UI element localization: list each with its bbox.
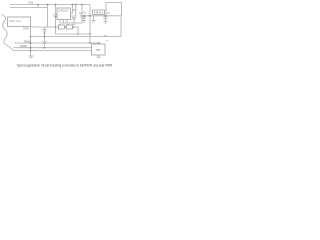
- svg-text:PWM2: PWM2: [20, 46, 28, 48]
- junction dot x30 y43: [30, 42, 32, 44]
- wire cap C2 to ground: [73, 19, 75, 23]
- ground G2: [82, 20, 86, 22]
- junction dot x55 y16: [55, 16, 57, 18]
- junction dot rail x55: [55, 4, 57, 6]
- junction dot x85 y15: [83, 15, 85, 17]
- junction dot x90 y15: [89, 15, 91, 17]
- capacitor C5 right crystal: [104, 16, 108, 18]
- junction dot rail x47: [47, 4, 49, 6]
- svg-text:GND: GND: [23, 26, 29, 30]
- wire crystal net: [84, 15, 121, 17]
- wire vertical x90 main: [89, 5, 91, 44]
- ground G3: [104, 21, 108, 23]
- svg-text:xx: xx: [59, 24, 61, 26]
- module box PWM: [92, 44, 106, 55]
- junction dot x99 y43: [98, 42, 100, 44]
- junction dot x65 y27: [65, 26, 67, 28]
- IC connector box ICP: [8, 17, 31, 27]
- junction dot x73 y27: [73, 26, 75, 28]
- wire net y36 long: [31, 36, 122, 38]
- svg-text:cap: cap: [96, 49, 101, 52]
- wire ICP vertical x30: [30, 27, 32, 52]
- wire EEPROM bottom pins: [59, 20, 61, 24]
- wire top-right loop: [106, 3, 122, 16]
- wire vertical from rails x47: [47, 5, 49, 28]
- ground G4 under x30: [30, 51, 32, 56]
- wire vertical x78 down: [77, 27, 79, 34]
- ground G6 crystal left pin: [93, 16, 95, 20]
- junction dot x90 y43: [89, 42, 91, 44]
- capacitor C7 column x44 lower: [44, 37, 46, 42]
- wire cable squiggle: [2, 15, 14, 51]
- junction dot rail x82: [81, 4, 83, 6]
- capacitor C4 left crystal: [82, 16, 86, 18]
- wire second rail: [10, 7, 48, 9]
- wire net y34: [56, 33, 91, 35]
- wire PWM pair top: [14, 47, 92, 49]
- wire net y43 right: [14, 42, 100, 44]
- junction dot x110 y15: [105, 15, 107, 17]
- junction dot x44 y36: [44, 36, 46, 38]
- junction dot x44 y33: [44, 32, 46, 34]
- svg-text:VDD: VDD: [29, 3, 34, 5]
- wire vertical x82: [81, 5, 83, 16]
- wire rail-to-rail connector: [37, 5, 39, 8]
- IC EEPROM box U2: [57, 8, 71, 20]
- junction dot x44 y46: [44, 47, 46, 49]
- junction dot x30 y36: [30, 36, 32, 38]
- ground G1: [72, 22, 77, 24]
- wire right vertical to mid wire: [120, 16, 122, 37]
- wire vertical x75 pin: [71, 5, 76, 17]
- junction dot x30 y51: [30, 50, 32, 52]
- junction dot rail x72: [72, 4, 74, 6]
- capacitor C1 plates: [54, 13, 58, 15]
- junction dot x78 y36: [77, 33, 79, 35]
- capacitor C3 plates: [80, 14, 84, 16]
- wire PWM pair bottom: [13, 50, 92, 52]
- svg-text:ICP-xxx: ICP-xxx: [9, 19, 22, 23]
- junction dot rail x38: [37, 4, 39, 6]
- svg-text:PWM1: PWM1: [24, 42, 32, 44]
- wire vertical x55 lower: [55, 16, 57, 34]
- capacitor C6 column x44 upper: [44, 27, 46, 29]
- wire vertical x72 pin: [71, 5, 73, 14]
- ground G5 under PWM box: [98, 55, 100, 57]
- crystal box Y1: [93, 10, 105, 15]
- wire mid net y27: [31, 26, 79, 28]
- resistor R1 box: [59, 25, 65, 29]
- svg-text:xx: xx: [67, 24, 69, 26]
- resistor R2 box: [67, 25, 73, 29]
- wire vertical x55 upper: [55, 5, 57, 15]
- junction dot x30 y48: [30, 47, 32, 49]
- svg-text:Typical application Circuit in: Typical application Circuit including co…: [17, 63, 113, 67]
- junction dot x90 y36: [89, 33, 91, 35]
- junction dot rail x75: [75, 4, 77, 6]
- svg-text:24C02: 24C02: [59, 9, 69, 13]
- junction dot x55 y27: [55, 26, 57, 28]
- svg-text:4MHz: 4MHz: [94, 11, 104, 14]
- wire bottom pin bus: [60, 22, 82, 24]
- wire stub into PWM box: [98, 43, 100, 44]
- capacitor C2 plates: [72, 17, 76, 19]
- wire VDD rail top: [10, 4, 90, 6]
